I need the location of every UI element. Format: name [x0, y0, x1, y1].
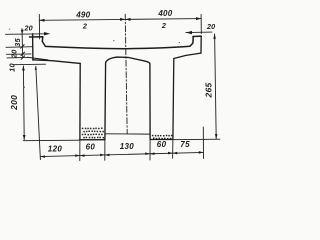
- arrow 490 left: [39, 19, 44, 22]
- arrow 400 left (at center): [125, 18, 130, 21]
- svg-text:60: 60: [157, 140, 167, 149]
- arrow left20: [44, 32, 50, 35]
- deck top surface with curbs: [30, 36, 202, 49]
- svg-text:75: 75: [180, 140, 190, 149]
- svg-text:2: 2: [82, 22, 87, 31]
- svg-text:10: 10: [7, 63, 16, 72]
- bottom dimension line: [40, 152, 203, 156]
- extension line 490 left: [38, 14, 40, 39]
- arrow pair at x104.8: [100, 154, 109, 157]
- right 20 dim line: [186, 31, 212, 34]
- svg-text:35: 35: [13, 38, 22, 47]
- top dimension line 490/400: [39, 19, 201, 21]
- extension line right edge top: [200, 14, 202, 33]
- svg-text:20: 20: [9, 49, 18, 59]
- right end ext line: [202, 127, 204, 158]
- tick y53.9: [21, 52, 25, 56]
- svg-text:490: 490: [75, 10, 90, 19]
- svg-text:200: 200: [9, 95, 19, 111]
- arrow 200 top up: [22, 66, 25, 71]
- arrow 200 bottom down: [23, 135, 26, 140]
- arrow pair at x149.9: [145, 152, 154, 155]
- small arrow ext top: [35, 66, 37, 70]
- left overhang soffit: [33, 60, 80, 64]
- slab right edge: [200, 36, 202, 53]
- right bearing pad dotted fill2: [152, 135, 154, 137]
- svg-text:400: 400: [157, 9, 172, 18]
- right web bottom: [150, 138, 173, 140]
- arrow 490 right (at center): [120, 18, 125, 21]
- ext line slab edge down to bottom dim: [36, 66, 41, 159]
- left web left face: [79, 63, 81, 139]
- right overhang soffit: [174, 53, 201, 58]
- web face ext lines to bottom dim: [79, 140, 81, 161]
- arrow pair at x172.6: [168, 152, 177, 155]
- centerline (dash-dot): [125, 14, 127, 134]
- 265 dim line: [215, 34, 217, 139]
- left ext y47: [6, 46, 33, 49]
- left web bottom: [80, 139, 105, 141]
- diaphragm bottom line between webs: [105, 133, 150, 135]
- arrow bottom left end: [40, 155, 45, 158]
- slab left edge: [32, 34, 34, 60]
- right web left face: [149, 64, 151, 140]
- left bearing pad dotted fill: [82, 128, 84, 130]
- tick y57.6: [21, 56, 25, 60]
- tick y46.4: [21, 45, 25, 49]
- arrow left stack top down: [21, 30, 24, 35]
- svg-text:2: 2: [161, 21, 166, 30]
- svg-text:130: 130: [120, 142, 135, 151]
- left ext y64.5: [13, 63, 46, 66]
- arrow bottom right end: [199, 151, 204, 154]
- left ext y57.5: [7, 56, 27, 59]
- svg-text:20: 20: [206, 22, 216, 31]
- svg-text:60: 60: [86, 143, 96, 152]
- bottom baseline right: [173, 138, 220, 141]
- svg-text:20: 20: [23, 23, 33, 32]
- left web right face: [104, 63, 107, 140]
- arrow pair at x79.9: [75, 154, 84, 157]
- left 20 dim line: [6, 33, 46, 36]
- svg-text:120: 120: [48, 144, 63, 153]
- arrow right20: [186, 31, 192, 34]
- right web right face: [172, 59, 175, 140]
- bottom baseline left: [23, 139, 80, 142]
- left vertical dim line: [22, 29, 24, 140]
- svg-text:265: 265: [203, 83, 213, 99]
- mid soffit with haunches: [106, 57, 150, 64]
- arrow 265 bottom: [215, 134, 218, 139]
- left ext y54: [7, 53, 32, 55]
- arrow 400 right: [196, 17, 201, 20]
- arrow 265 top: [213, 34, 216, 39]
- left overhang soffit upper line: [27, 57, 48, 60]
- paper specks: [9, 29, 180, 88]
